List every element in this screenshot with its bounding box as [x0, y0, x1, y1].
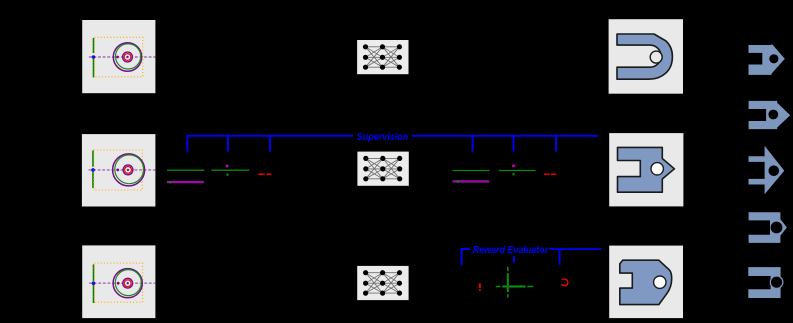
svg-text:Reward Evaluator: Reward Evaluator — [473, 245, 549, 256]
column of five small gripper icons — [748, 44, 790, 299]
environment panel row1 (pushing env with goal circles) — [82, 20, 155, 93]
red rotation ring marker — [559, 277, 569, 287]
red exclamation mark — [479, 283, 481, 291]
gripper panel row3 (closed rounded gripper) — [609, 246, 683, 319]
Supervision bracket with ticks — [187, 132, 598, 152]
policy network icon row3 — [357, 265, 410, 300]
Reward Evaluator bracket — [462, 245, 601, 265]
trajectory mini-plot left group — [167, 165, 271, 184]
green dashed cross (goal marker) — [496, 267, 533, 298]
svg-text:Supervision: Supervision — [357, 132, 409, 143]
policy network icon row2 — [357, 151, 410, 186]
environment panel row3 — [82, 245, 155, 318]
environment panel row2 — [82, 134, 156, 206]
gripper panel row1 (open gripper) — [609, 19, 683, 94]
policy network icon row1 — [357, 39, 410, 74]
gripper panel row2 (closed pointed gripper) — [609, 133, 683, 206]
trajectory mini-plot right group — [453, 165, 557, 183]
